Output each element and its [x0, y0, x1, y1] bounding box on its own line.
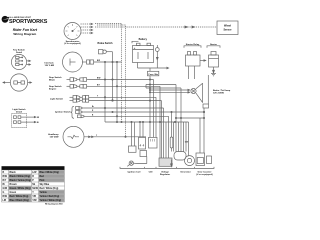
- ignition coil body: [134, 151, 147, 164]
- starter relay: [186, 52, 201, 67]
- wire light2 bus: [89, 100, 162, 102]
- svg-text:Sb: Sb: [32, 184, 36, 186]
- voltage regulator: [159, 158, 172, 166]
- svg-text:SPORTWORKS: SPORTWORKS: [9, 19, 48, 25]
- svg-text:L/W: L/W: [32, 172, 37, 174]
- svg-text:Y/R: Y/R: [32, 196, 36, 198]
- wire key switch to bus: [94, 61, 122, 63]
- svg-text:Y/W: Y/W: [32, 200, 37, 202]
- svg-text:R/W: R/W: [3, 196, 8, 198]
- svg-text:P: P: [32, 180, 34, 182]
- connector box small: [129, 146, 137, 152]
- svg-text:Wiring Diagram: Wiring Diagram: [13, 32, 36, 36]
- wire right vertical x208: [207, 75, 209, 104]
- svg-text:Green / White (Org): Green / White (Org): [10, 187, 31, 190]
- svg-text:Y: Y: [32, 192, 34, 194]
- svg-text:Wiring diagram 2003: Wiring diagram 2003: [45, 204, 63, 206]
- svg-text:Pink: Pink: [40, 180, 46, 182]
- svg-text:12V 21/5W: 12V 21/5W: [213, 93, 225, 95]
- tail lamp: [191, 83, 203, 102]
- key switch detail circle: [11, 54, 26, 69]
- svg-text:Brake Switch: Brake Switch: [98, 42, 114, 45]
- svg-text:Regulator: Regulator: [160, 173, 170, 176]
- battery: [133, 43, 154, 62]
- svg-text:Wheel: Wheel: [224, 25, 231, 28]
- svg-text:Sensor: Sensor: [223, 29, 231, 32]
- wire interlock right: [28, 82, 32, 83]
- wire relay down 1: [188, 66, 190, 79]
- engine bus verticals: [153, 80, 155, 138]
- svg-text:Yellow / Red (Org): Yellow / Red (Org): [40, 196, 60, 198]
- svg-text:Wire Color Chart: Wire Color Chart: [3, 167, 22, 170]
- wire dashed branch down x121.5: [95, 24, 122, 123]
- generator capsule: [174, 152, 186, 161]
- svg-text:Starter: Starter: [210, 43, 217, 46]
- wire speedo dashed 2: [81, 26, 92, 28]
- svg-text:Blue / Black (Org): Blue / Black (Org): [10, 200, 30, 202]
- cdi box A: [139, 137, 146, 149]
- svg-text:Engine: Engine: [49, 88, 57, 90]
- svg-text:Red / White (Org): Red / White (Org): [40, 187, 59, 190]
- vertical bus x105: [104, 62, 106, 122]
- light switch connectors row2: [70, 99, 89, 102]
- svg-text:Battery: Battery: [139, 38, 148, 41]
- starter: [209, 52, 219, 68]
- light switch detail box: [12, 114, 27, 128]
- svg-text:B: B: [3, 172, 5, 174]
- wire light1 bus: [89, 96, 156, 98]
- key switch connector: [82, 60, 94, 64]
- svg-text:G: G: [3, 192, 5, 194]
- svg-text:Br: Br: [92, 106, 94, 108]
- stop switch engine connectors: [67, 85, 89, 89]
- svg-text:Fuse 30a: Fuse 30a: [149, 74, 159, 76]
- svg-text:Sky Blue: Sky Blue: [40, 184, 50, 186]
- spark plug: [127, 161, 133, 166]
- wire relay down 2: [194, 66, 196, 79]
- wire battery bottom: [137, 63, 139, 69]
- fuse 30a: [148, 68, 159, 137]
- regulator ground arrow: [171, 160, 173, 167]
- small connector right: [203, 104, 209, 108]
- wire speedo dashed 1: [81, 23, 92, 25]
- svg-text:(if so equipped): (if so equipped): [64, 43, 81, 45]
- speedometer: [64, 23, 81, 40]
- wire dashed branch down x125.5: [97, 25, 126, 137]
- wire light detail out2: [27, 121, 40, 124]
- svg-text:Starter Relay: Starter Relay: [186, 43, 200, 46]
- wire x200: [199, 118, 201, 153]
- wire headlamp bus: [84, 136, 146, 138]
- logo icon: [2, 16, 9, 23]
- engine baseline bracket: [120, 167, 214, 169]
- svg-text:B: B: [37, 122, 39, 124]
- svg-text:Black: Black: [10, 172, 17, 174]
- svg-text:CDI: CDI: [149, 171, 153, 173]
- wire ignition2 bus: [84, 111, 204, 113]
- svg-text:G/W: G/W: [3, 188, 8, 190]
- svg-text:Brown: Brown: [10, 184, 18, 186]
- battery bracket: [132, 41, 139, 43]
- wire relay to starter: [200, 60, 206, 62]
- svg-text:Light Switch: Light Switch: [50, 97, 64, 100]
- svg-text:Yellow: Yellow: [40, 192, 47, 194]
- tail lamp wires: [149, 89, 190, 93]
- svg-text:L/B: L/B: [3, 200, 7, 202]
- headlamp: [63, 126, 84, 147]
- wheel sensor box: [217, 21, 238, 35]
- key switch: [63, 52, 83, 72]
- vertical bus x112.5: [112, 62, 114, 100]
- svg-text:12V 3.4W: 12V 3.4W: [45, 64, 56, 67]
- svg-text:R: R: [32, 176, 34, 178]
- svg-text:Black / Yellow (Org): Black / Yellow (Org): [10, 180, 32, 182]
- svg-text:Red: Red: [40, 176, 45, 178]
- cdi box B: [149, 137, 158, 148]
- wire key detail out 2: [27, 64, 31, 65]
- wire y118 right: [176, 117, 204, 119]
- wire ignition3 bus: [84, 115, 169, 117]
- wire color chart: [2, 166, 65, 205]
- svg-text:Yellow / White (Org): Yellow / White (Org): [40, 199, 62, 202]
- svg-text:B/W: B/W: [3, 176, 8, 178]
- svg-text:Ignition Switch: Ignition Switch: [55, 110, 71, 113]
- diode: [155, 45, 159, 68]
- svg-text:Generator: Generator: [180, 170, 191, 173]
- interlock connector detail circle: [10, 74, 27, 91]
- svg-text:Red / White (Org): Red / White (Org): [10, 195, 29, 198]
- svg-text:(if so equipped): (if so equipped): [196, 174, 213, 176]
- wire stop engine bus: [89, 85, 161, 87]
- wire interlock left: [3, 82, 10, 83]
- wire speedo dashed 3: [81, 29, 92, 31]
- light switch connectors row1: [70, 96, 89, 100]
- svg-text:Detail: Detail: [16, 51, 22, 54]
- generator: [185, 156, 195, 166]
- stop switch black connectors: [67, 78, 89, 82]
- starter relay bracket: [184, 46, 201, 48]
- svg-text:Sb/W: Sb/W: [32, 188, 39, 190]
- starter bracket: [207, 46, 220, 48]
- svg-text:+: +: [134, 46, 136, 50]
- gear counter boxes: [196, 153, 212, 166]
- wire ignition1 bus: [84, 107, 164, 109]
- wire brake switch down: [112, 52, 114, 62]
- wire key detail out 1: [27, 60, 31, 61]
- wire light detail out1: [27, 116, 41, 119]
- wire speedo dashed 4: [81, 32, 92, 34]
- wire code labels: [92, 60, 101, 137]
- wire dashed to wheel sensor: [95, 26, 217, 28]
- svg-text:Detail: Detail: [16, 111, 22, 114]
- svg-text:Black / White (Org): Black / White (Org): [10, 175, 31, 178]
- svg-text:B/Y: B/Y: [3, 180, 7, 182]
- svg-text:Br: Br: [3, 184, 6, 186]
- ignition switch cluster: [71, 106, 84, 118]
- starter ground: [211, 67, 216, 76]
- wire battery out y68: [138, 67, 169, 69]
- svg-text:12V 25W: 12V 25W: [50, 137, 60, 139]
- svg-text:B/W: B/W: [97, 78, 101, 80]
- wire x204 down to gear counter: [203, 108, 205, 153]
- brake switch: [99, 50, 113, 54]
- bus horizontal y122: [105, 121, 189, 123]
- svg-text:Blue / White (Org): Blue / White (Org): [40, 171, 60, 174]
- wire stop black bus: [89, 79, 154, 81]
- svg-text:Ignition Coil: Ignition Coil: [128, 170, 141, 173]
- svg-text:Black: Black: [49, 80, 56, 82]
- svg-text:Green: Green: [10, 192, 17, 194]
- svg-text:W: W: [37, 117, 40, 119]
- vertical bus x117: [116, 62, 118, 122]
